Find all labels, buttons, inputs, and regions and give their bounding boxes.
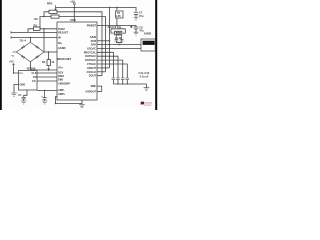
diode bridge D1-D4 diamond [16, 42, 44, 62]
svg-text:R4: R4 [42, 60, 46, 64]
wire caps common rail [113, 80, 146, 88]
svg-text:DB0: DB0 [58, 78, 64, 82]
wire right pin row 91.4 [97, 90, 102, 92]
svg-text:DAV: DAV [91, 43, 96, 47]
capacitor C10 [120, 40, 124, 41]
svg-text:PROTCAL: PROTCAL [84, 50, 97, 54]
wire bridge right to chip [44, 51, 57, 53]
wire right pin row 71.8 [97, 71, 106, 73]
wire right pin row 86.1 [97, 86, 102, 91]
capacitor C13 [121, 78, 125, 80]
svg-text:CMOS/BP: CMOS/BP [58, 81, 70, 85]
svg-text:X1 4M: X1 4M [115, 36, 122, 40]
svg-text:REJUST: REJUST [58, 31, 68, 35]
capacitor C1 [22, 97, 26, 99]
wire C7 bottom [135, 14, 137, 17]
wire LCD lower feed row 48.4 [97, 47, 141, 49]
svg-text:+5V: +5V [70, 0, 75, 3]
svg-text:SUB: SUB [91, 39, 97, 43]
watermark logo [141, 102, 152, 106]
node j16 [30, 37, 31, 38]
svg-text:AXROUT: AXROUT [85, 89, 96, 93]
capacitor C12 [116, 78, 120, 80]
svg-text:DOUT: DOUT [89, 74, 97, 78]
svg-text:AMP-: AMP- [58, 88, 65, 92]
node j3 [48, 51, 49, 52]
wire U2 bottom lead [24, 90, 27, 97]
wire R3 left lead [28, 29, 33, 33]
wire U2 bottom right pin [37, 89, 57, 91]
op-amp U1 main ADC chip body [57, 22, 97, 100]
svg-text:UDD: UDD [70, 18, 76, 22]
svg-text:CS/CLK: CS/CLK [87, 70, 97, 74]
svg-text:OHTOAC: OHTOAC [85, 54, 96, 58]
svg-text:C11~C14: C11~C14 [139, 71, 150, 75]
wire left pin row 37.5 [11, 37, 57, 39]
wire top right pin to C8 [97, 26, 136, 28]
wire U2 left pin2 to ground [14, 85, 19, 94]
diode D1 [21, 45, 25, 49]
svg-text:SA/B: SA/B [90, 35, 96, 39]
node j13 [122, 83, 123, 84]
wire Vcc drop to chip [73, 7, 75, 22]
svg-text:KVM3: KVM3 [144, 31, 152, 35]
wire R4 bottom lead [48, 66, 50, 70]
svg-text:VD506: VD506 [27, 67, 36, 71]
ground G4 [134, 18, 139, 21]
node j7 [116, 7, 117, 8]
svg-text:47u: 47u [139, 14, 144, 18]
wire +5V to U2 [14, 66, 19, 73]
ground G2 [21, 101, 27, 104]
capacitor C11 [112, 78, 116, 80]
wire U3 input [116, 7, 118, 11]
LCD module LCD1 [141, 39, 155, 51]
wire bridge top feed [29, 38, 31, 43]
node +5V terminal [13, 64, 15, 67]
voltage regulator U3 box [116, 11, 123, 18]
node j10 [105, 44, 106, 45]
node j15 [118, 28, 119, 29]
ground G1 [11, 93, 17, 96]
svg-text:Uin: Uin [34, 17, 39, 21]
svg-text:AMP+: AMP+ [58, 92, 66, 96]
wire seg row 60.1 [97, 60, 123, 78]
wire right pin row 67.9 [97, 67, 110, 69]
svg-text:CS: CS [32, 79, 36, 83]
node terminal T2 [10, 36, 12, 39]
svg-text:MAX1497: MAX1497 [57, 57, 71, 61]
svg-text:RP1: RP1 [47, 2, 53, 6]
wire C1 bottom [23, 99, 25, 101]
capacitor C2 [43, 90, 47, 101]
capacitor C7 [134, 12, 138, 14]
node j19 [116, 25, 117, 26]
node j12 [117, 83, 118, 84]
ground G9 [42, 101, 48, 104]
svg-text:FTOAC: FTOAC [87, 62, 96, 66]
diode D4 [35, 55, 39, 59]
wire caps to ground [116, 41, 121, 43]
svg-text:DB/A: DB/A [58, 74, 64, 78]
node j1 [43, 16, 44, 17]
svg-text:4.7u x4: 4.7u x4 [140, 74, 149, 78]
ground G5 [134, 32, 139, 35]
wire U2 right pin a [37, 72, 57, 74]
svg-text:+5V: +5V [9, 60, 14, 64]
diode D3 [21, 55, 25, 59]
svg-text:DCV: DCV [58, 70, 64, 74]
ground G7 [144, 88, 150, 91]
wire R1 right lead to bus [57, 12, 102, 76]
node j6 [74, 7, 75, 8]
op-amp U2 reference IC box [19, 71, 38, 91]
left border bar [0, 0, 2, 110]
wire U2 right pin b [37, 76, 57, 78]
wire seg row 64 [97, 64, 127, 78]
crystal Y1 [115, 31, 122, 35]
node j17 [48, 69, 49, 70]
right border bar [155, 0, 157, 110]
wire bridge left stub [13, 51, 17, 53]
resistor R3 horizontal box [33, 27, 40, 30]
wire top rail [56, 7, 137, 12]
svg-text:~u: ~u [11, 54, 14, 57]
capacitor C8 [134, 27, 138, 29]
svg-text:IN+: IN+ [58, 41, 63, 45]
wire seg row 56.2 [97, 56, 118, 78]
svg-text:LDOAC: LDOAC [87, 46, 96, 50]
node Vcc supply top [73, 3, 75, 5]
wire R4 top lead [48, 52, 50, 60]
wire chip left bottom pin [56, 97, 83, 104]
wire j2 drop to bridge right corner [43, 29, 45, 52]
resistor R2 lower box [51, 15, 59, 18]
svg-text:C1: C1 [18, 93, 22, 97]
node j5 [55, 103, 56, 104]
node j4 [13, 72, 14, 73]
wire LCD upper feed row 44.5 [97, 44, 141, 46]
wire seg row 52.3 [97, 52, 113, 78]
svg-text:OHTOAC: OHTOAC [85, 58, 96, 62]
svg-text:D1~4: D1~4 [20, 38, 27, 42]
svg-text:AGND: AGND [58, 46, 66, 50]
diode D2 [35, 45, 39, 49]
wire R3 right lead [40, 28, 57, 30]
svg-text:LMOUT: LMOUT [87, 66, 96, 70]
node terminal T1 [10, 31, 12, 34]
wire crystal top rail [111, 29, 125, 33]
capacitor C9 [115, 40, 119, 41]
wire row 70 to chip [30, 69, 57, 71]
svg-text:CLK: CLK [32, 71, 37, 75]
wire right pin row 75.7 [97, 75, 102, 77]
svg-text:L05: L05 [116, 14, 121, 18]
wire chip bottom ground lead [81, 100, 83, 105]
svg-text:UA+: UA+ [58, 66, 64, 70]
svg-text:U+: U+ [20, 71, 24, 75]
node j2 [43, 28, 44, 29]
wire U2 right pin c [37, 80, 57, 82]
svg-text:C9,C10 15p: C9,C10 15p [108, 25, 122, 29]
svg-text:PWRST: PWRST [87, 24, 97, 28]
capacitor C14 [126, 78, 130, 80]
svg-text:IN-: IN- [58, 36, 62, 40]
node j14 [127, 83, 128, 84]
svg-text:DO: DO [33, 75, 37, 79]
node j9 [109, 40, 110, 41]
svg-text:GND: GND [20, 83, 26, 87]
svg-text:SMF: SMF [91, 84, 97, 88]
wire C8 bottom [135, 29, 137, 32]
wire R1 left lead [40, 12, 51, 29]
wire R2 right lead to bus [59, 17, 106, 72]
wire caps leads [116, 35, 121, 40]
svg-text:THRC: THRC [58, 27, 65, 31]
wire bus x109.5 [109, 7, 111, 68]
node j11 [101, 48, 102, 49]
ground G3 [79, 105, 85, 108]
wire bridge bottom drop [29, 62, 31, 70]
resistor R4 vertical box [47, 60, 50, 66]
resistor R1 trimpot box [49, 10, 57, 13]
ground G6 [117, 43, 122, 46]
wire left pin row 32.4 [11, 31, 57, 33]
wire right pin row 40.8 [97, 40, 110, 42]
node j18 [44, 90, 45, 91]
wire U3 output down [116, 18, 118, 26]
node j8 [109, 7, 110, 8]
svg-text:R1: R1 [34, 23, 38, 27]
resistor R1 wiper arrow [55, 5, 57, 10]
